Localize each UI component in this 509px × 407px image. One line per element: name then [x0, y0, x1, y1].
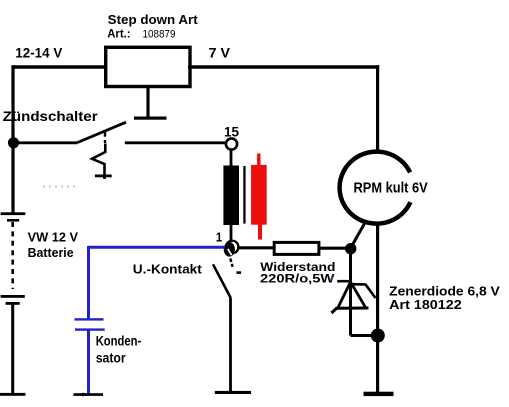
svg-text:15: 15 — [224, 124, 239, 139]
switch contact dash — [104, 131, 106, 137]
wire diagonal junction to RPM gauge — [352, 224, 365, 247]
gray remnant dots — [43, 186, 75, 188]
wire top-right horizontal 7V feed — [188, 65, 379, 68]
wire battery to ground — [11, 303, 14, 394]
switch contact dot — [104, 140, 106, 143]
wire node1 to resistor — [237, 246, 275, 249]
wire top-left horizontal 12-14V feed — [12, 65, 108, 69]
svg-text:220R/o,5W: 220R/o,5W — [260, 271, 335, 285]
zener diode triangle left side — [338, 282, 351, 308]
node dot ignition switch — [8, 137, 19, 148]
capacitor plate top blue — [75, 318, 104, 320]
zener diode triangle right side — [351, 282, 366, 307]
terminal 15 circle — [226, 138, 237, 149]
minus sign — [237, 271, 242, 274]
battery plate long bottom — [1, 295, 25, 298]
svg-text:RPM kult 6V: RPM kult 6V — [354, 181, 428, 197]
wire terminal 15 to coil — [230, 150, 233, 167]
ground RPM — [364, 392, 394, 396]
svg-text:7 V: 7 V — [209, 45, 231, 61]
wire blue vertical down to capacitor — [87, 246, 90, 319]
ground U-Kontakt — [215, 391, 251, 394]
capacitor plate bottom blue — [75, 328, 105, 330]
svg-text:Konden-: Konden- — [96, 333, 142, 349]
switch blade Zuendschalter — [78, 122, 127, 142]
ground capacitor — [74, 393, 104, 396]
red lead bottom — [258, 224, 262, 239]
svg-text:U.-Kontakt: U.-Kontakt — [133, 262, 203, 277]
zener cathode bar left — [337, 280, 351, 283]
dot on capacitor ground — [81, 393, 84, 396]
resistor Widerstand 220R — [274, 242, 319, 254]
svg-text:sator: sator — [96, 350, 127, 365]
battery plate long top — [1, 212, 26, 215]
red lead top — [257, 154, 260, 166]
wire switch right segment to terminal 15 — [125, 141, 226, 144]
junction dot — [345, 243, 356, 254]
step-down converter box U1 — [106, 47, 190, 86]
wire blue horizontal node1 to capacitor — [89, 246, 226, 249]
wire right vertical to RPM gauge — [376, 65, 379, 150]
ground battery — [0, 393, 26, 396]
svg-text:Art 180122: Art 180122 — [389, 297, 462, 312]
svg-text:108879: 108879 — [143, 29, 176, 41]
coil core thin line — [243, 166, 245, 224]
svg-text:Batterie: Batterie — [28, 245, 74, 260]
svg-text:VW 12 V: VW 12 V — [28, 230, 79, 245]
spring under switch — [92, 144, 105, 180]
svg-text:Art.:: Art.: — [107, 27, 130, 41]
coil secondary red bar — [251, 165, 267, 225]
wire U-Kontakt to ground — [229, 298, 232, 393]
wire left vertical battery feed — [11, 65, 14, 214]
wire step-down ground stem — [146, 87, 149, 119]
terminal 1 ring — [226, 241, 239, 254]
battery plate short bottom — [6, 302, 20, 305]
wire junction down through zener — [349, 249, 352, 336]
zener diode anode base — [332, 308, 369, 313]
wire blue capacitor to ground — [87, 330, 90, 394]
white tick inside dot — [228, 249, 232, 255]
svg-text:Zündschalter: Zündschalter — [3, 109, 99, 124]
battery plate short top — [7, 219, 19, 222]
terminal 1 filled dot — [224, 242, 235, 257]
RPM gauge circle — [340, 152, 411, 224]
ignition coil primary black bar — [223, 166, 239, 226]
wire coil to node 1 — [230, 225, 233, 242]
svg-text:Step down Art: Step down Art — [108, 13, 199, 27]
zener cathode bar right with bend — [352, 284, 376, 298]
svg-text:1: 1 — [216, 231, 223, 245]
wire zener bottom horizontal — [351, 334, 379, 337]
U-Kontakt blade — [213, 264, 231, 297]
ground small under switch spring — [95, 175, 112, 178]
contact dash 1 under terminal 1 — [230, 259, 231, 263]
ground under step-down box — [134, 117, 167, 120]
battery dashed middle — [11, 222, 14, 289]
wire RPM gauge bottom vertical — [376, 226, 379, 393]
svg-text:12-14 V: 12-14 V — [15, 44, 63, 60]
wire resistor to junction — [319, 247, 351, 250]
contact dash 2 under terminal 1 — [231, 264, 234, 267]
wire switch left segment — [13, 141, 78, 144]
junction big dot — [371, 329, 385, 343]
zener remnant tick — [331, 275, 334, 281]
